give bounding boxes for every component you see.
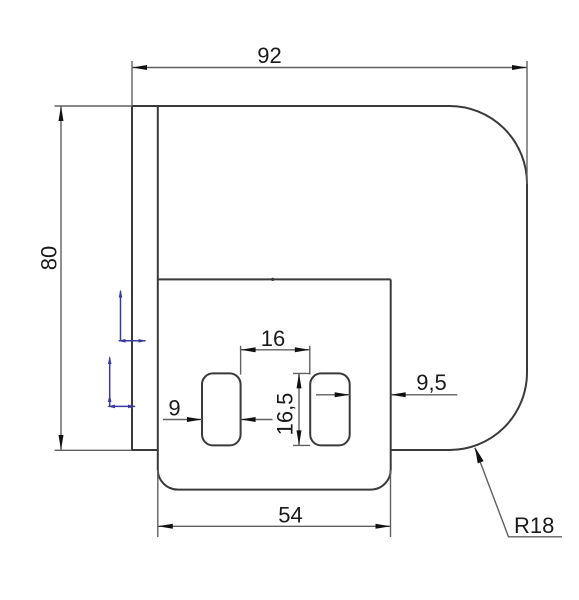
dimension 80 line — [60, 106, 62, 450]
dimension 80 extension lines — [55, 106, 133, 450]
dimension 9 right leader with arrow — [241, 419, 273, 421]
back plate outline (92x80, R18 right corners) — [132, 106, 527, 450]
svg-text:54: 54 — [278, 503, 302, 528]
svg-text:92: 92 — [257, 43, 281, 68]
right slot (9.5 wide) — [310, 373, 350, 445]
dimension 16 line — [241, 349, 310, 351]
svg-text:R18: R18 — [514, 513, 554, 538]
blue annotation mark 1 — [118, 290, 147, 343]
dimension 54 extension lines — [158, 470, 391, 537]
svg-text:16,5: 16,5 — [273, 393, 298, 436]
R18 leader arrowhead — [475, 447, 484, 463]
svg-text:80: 80 — [37, 246, 62, 270]
svg-text:9,5: 9,5 — [416, 370, 447, 395]
dimension 80 arrowheads — [59, 106, 64, 121]
R18 leader line — [475, 448, 562, 537]
dimension 92 extension lines — [132, 61, 527, 184]
dimension 54 arrowheads — [158, 524, 173, 529]
dimension 54 line — [158, 525, 391, 527]
front plate outline (54 wide, rounded bottom corners) — [158, 106, 391, 490]
dimension 16,5 line — [298, 373, 300, 445]
dimension 16 arrowheads — [241, 347, 256, 352]
dimension 92 line — [132, 67, 527, 69]
midpoint dot on front plate top edge — [271, 278, 274, 281]
svg-text:16: 16 — [261, 326, 285, 351]
svg-text:9: 9 — [168, 395, 180, 420]
dimension 9,5 inner leader with arrow — [316, 394, 350, 396]
dimension 16,5 arrowheads — [297, 373, 302, 388]
dimension 16 extension lines — [241, 346, 310, 375]
blue annotation mark 2 — [107, 356, 136, 408]
dimension 9 left leader with arrow — [163, 419, 202, 421]
dimension 16,5 extension lines — [293, 373, 310, 445]
left slot (9 x 16.5) — [202, 373, 241, 445]
dimension 9,5 outer leader with arrow — [391, 394, 458, 396]
dimension 92 arrowheads — [132, 65, 147, 70]
